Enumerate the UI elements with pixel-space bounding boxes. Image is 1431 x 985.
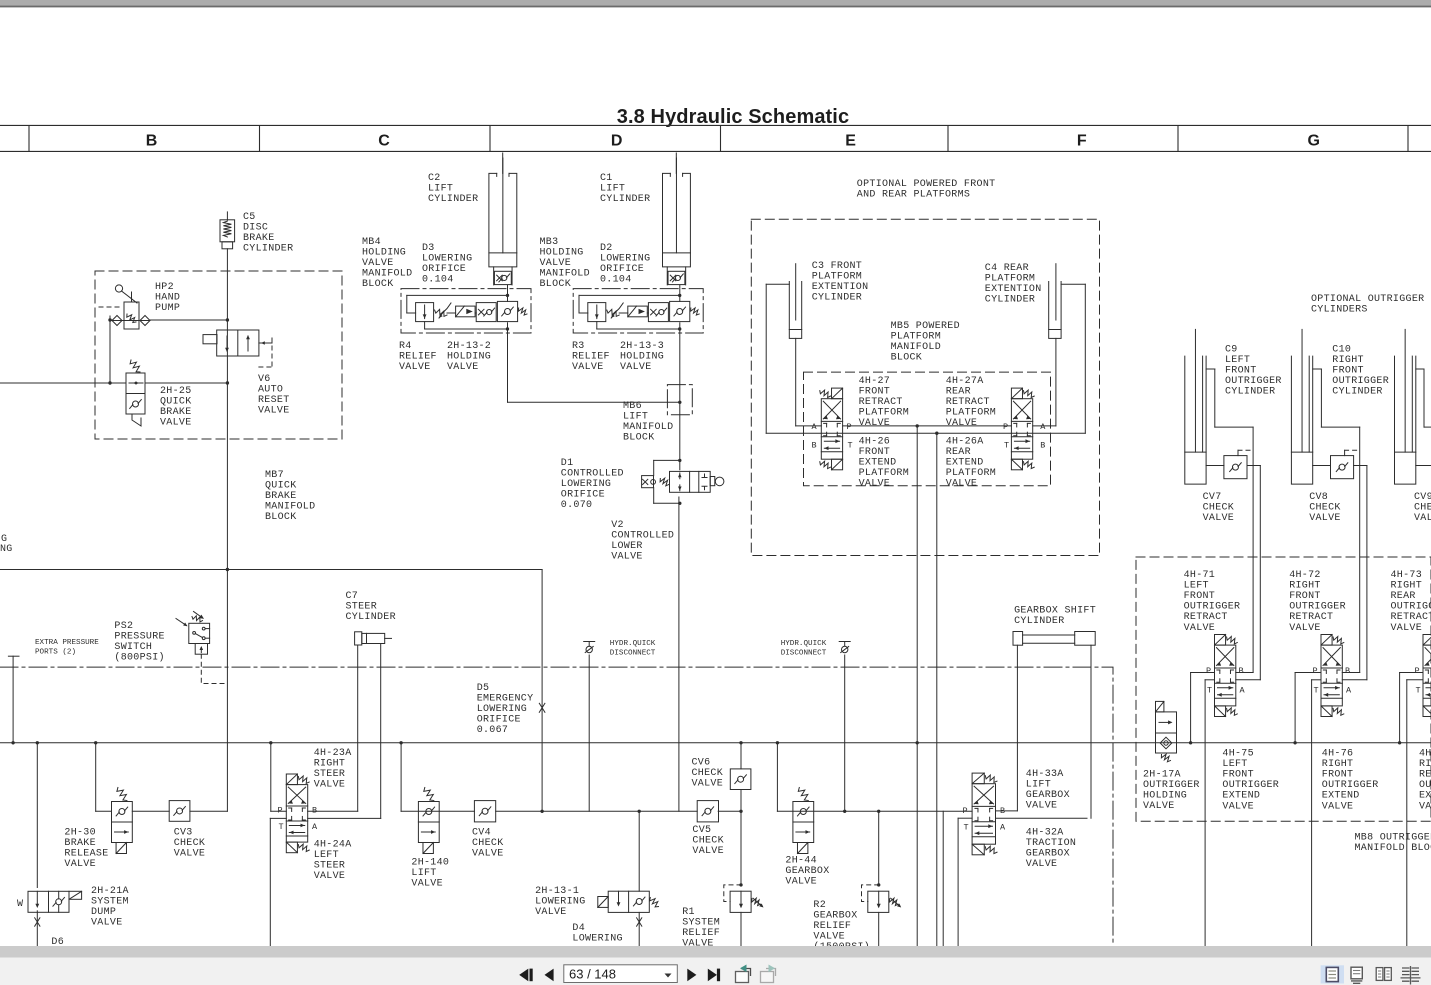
wire 4H-72 T drain [1311,680,1313,946]
svg-text:F: F [1077,133,1087,150]
relief valve R4 [406,295,408,313]
svg-text:P: P [847,422,852,432]
relief valve R3 [578,295,580,313]
hand pump HP2 [110,320,150,322]
wire gearbox cyl right down [1090,645,1092,818]
svg-text:P: P [1206,666,1211,676]
wire to 4H-27 A [796,425,822,427]
wire P-P platform valves [843,425,1012,427]
relief valve R1 [739,883,742,886]
wire 4H-71 T stub [1205,679,1214,681]
junction x542 connector [540,810,543,813]
cylinder C7 steer [355,632,362,645]
svg-text:3.8 Hydraulic Schematic: 3.8 Hydraulic Schematic [617,106,849,128]
wire 2H-25 to x227 [145,382,227,384]
valve 2H-17A outrigger holding [1156,701,1164,712]
valve 4H-73 stack partial [1423,635,1431,646]
wire horizontal y569 to D5 drop [0,569,542,571]
valve 2H-44 gearbox [798,788,808,801]
wire to 4H-23A B [308,810,358,812]
toolbar last page button [708,969,717,982]
wire C2 rod above [502,153,504,173]
svg-text:W: W [17,899,23,910]
svg-text:P: P [1313,666,1318,676]
layout icon two page continuous [1401,966,1421,985]
junction x639 connector [638,810,641,813]
svg-text:MB8 OUTRIGGERMANIFOLD BLOC: MB8 OUTRIGGERMANIFOLD BLOC [1355,833,1431,855]
check valve in manifold R3 [670,301,690,321]
wire CV6 drop upper [740,743,742,769]
wire MB4 check down [507,323,509,403]
svg-text:NG: NG [0,544,13,555]
wire 4H-72 B stub [1342,672,1359,674]
drawing grid header band [0,125,1431,151]
wire gearbox T drain x958 [957,818,959,946]
toolbar first page button [519,969,528,982]
junction bus 4H-72 [1293,741,1296,744]
wire drop to lift valve x401 [400,743,402,812]
wire x96 to 2H-30 [96,810,112,812]
junction x227 y569 [226,568,229,571]
wire 4H-71 P stub [1191,672,1215,674]
cylinder C4 rear platform [1055,264,1057,320]
wire C3 left vertical [765,284,767,433]
svg-text:T: T [1416,686,1421,696]
wire D5 vertical x542 [541,570,543,812]
valve 2H-13-1 lowering [598,897,608,908]
page title [0,106,1431,151]
wire 4H-73 P drop [1399,673,1401,743]
svg-text:B: B [146,133,158,150]
svg-text:P: P [1003,422,1008,432]
valve 4H-72/4H-76 stack [1321,635,1332,646]
wire to 4H-33A B [996,810,1018,812]
svg-text:B: B [812,441,817,451]
svg-text:D: D [611,133,623,150]
layout icon continuous [1351,967,1362,979]
valve 4H-23A/4H-24A steer stack [286,774,297,785]
check valve CV8 [1331,456,1354,479]
valve 4H-27A/4H-26A rear platform stack [1011,388,1022,399]
wire quick disconnect 2 drop [844,655,846,811]
orifice check in manifold R3 [648,303,668,322]
cylinder C5 disc brake [220,220,235,242]
manifold box R4 [401,289,531,333]
wire connector to CV6 line [718,810,741,812]
valve 4H-71/4H-75 stack [1215,635,1226,646]
svg-text:B: B [1000,806,1005,816]
junction x227 brake [226,381,229,384]
wire lift connector right segment [777,810,972,812]
check valve in manifold R4 [497,301,517,321]
wire C4 head side [1061,283,1085,285]
svg-text:HYDR.QUICKDISCONNECT: HYDR.QUICKDISCONNECT [781,640,827,658]
wire 4H-72 P stub [1295,672,1321,674]
toolbar next page button [687,969,696,982]
svg-text:A: A [1240,686,1246,696]
wire across to MB6 [508,401,680,403]
svg-text:A: A [1000,823,1006,833]
manifold block MB7 dashed box [95,271,342,439]
svg-text:T: T [1314,686,1319,696]
wire C7 left down [357,645,359,811]
wire to 4H-24A A [308,817,381,819]
wire C1 circuit down x680 [679,323,681,470]
relief valve R2 [877,883,880,886]
svg-text:B: B [1345,666,1350,676]
svg-text:P: P [1415,666,1420,676]
junction x879 connector [877,810,880,813]
optional platforms dashed box [751,219,1099,555]
wire 4H-72 A stub [1342,679,1367,681]
wire C3 rod side down [795,338,797,426]
wire 4H-71 B stub [1236,672,1253,674]
wire 4H-73 P stub [1400,672,1423,674]
svg-text:B: B [312,806,317,816]
wire lift connector mid segment [496,810,698,812]
wire to 4H-27A A [1033,425,1056,427]
bottom gray band [0,946,1431,958]
wire 4H-73 T drain [1406,680,1408,946]
svg-text:B: B [1239,666,1244,676]
wire 2H-21A tank down [36,911,38,946]
wire 4H-71 A stub [1236,679,1261,681]
junction bus x401 [399,741,402,744]
wire V2 outlet down x679 [678,497,680,811]
svg-text:C3 FRONTPLATFORMEXTENTIONCYLIN: C3 FRONTPLATFORMEXTENTIONCYLINDER [812,261,869,304]
wire brake circuit vertical x227 [226,249,228,812]
svg-text:T: T [1207,686,1212,696]
svg-text:E: E [845,133,856,150]
hydraulic quick disconnect 1 [584,641,595,643]
wire platform T long drop x937 [936,433,938,946]
wire drop to 2H-13-1 x639 [638,811,640,891]
check valve CV6 [730,769,751,790]
valve 2H-30 brake release [117,788,127,801]
valve 4H-27/4H-26 front platform stack [832,388,843,399]
wire drop to R2 x879 [878,811,880,885]
wire pump branch vertical [109,316,111,383]
cylinder C10 right front outrigger [1301,329,1303,452]
svg-text:B: B [1040,441,1045,451]
wire C4 rod side down [1055,338,1057,426]
wire steer feed x271 [270,743,272,812]
junction bus x37 [36,741,39,744]
valve V6 auto reset [203,335,217,344]
svg-text:A: A [312,822,318,832]
svg-text:T: T [1004,441,1009,451]
wire 4H-72 P drop [1294,673,1296,743]
manifold MB8 dashed box [1136,557,1431,821]
pressure switch PS2 [189,623,210,643]
svg-text:A: A [812,422,818,432]
wire CV6 to R1 [740,790,742,886]
junction bus x777 [776,741,779,744]
svg-text:G: G [1307,133,1319,150]
cylinder CV9 partial right edge [1404,329,1406,452]
wire quick disconnect 1 drop [588,655,590,811]
wire hand pump outlet [150,319,227,321]
svg-text:4H-RIGREAOUTEXTVAL: 4H-RIGREAOUTEXTVAL [1419,749,1431,813]
cylinder gearbox shift [1013,632,1023,646]
manifold box R3 [573,289,703,333]
wire drop to 2H-30 x96 [95,743,97,812]
wire 2H-13-1 tank down [638,912,640,946]
wire drop to 2H-44 x777 [776,743,778,812]
junction 2H-25 line [108,381,111,384]
svg-text:A: A [1346,686,1352,696]
wire steer P stub [271,810,287,812]
toolbar next view button (disabled) [761,969,776,983]
wire lift connector left segment [401,810,474,812]
wire T line platforms [766,432,1085,434]
wire platform P long drop x917 [916,426,918,946]
junction CV6 vertical [739,810,742,813]
junction pump branch [108,318,111,321]
wires C10 right front outrigger [1313,368,1322,370]
hydraulic quick disconnect 2 [839,641,850,643]
top window bar [0,0,1431,7]
toolbar prev page button [545,969,554,982]
junction x227 pump [226,318,229,321]
junction platform T drop [935,432,938,435]
junction bus x741 [739,741,742,744]
manifold block MB6 dashed box [667,385,692,415]
wire C3 head side [766,283,789,285]
wire R1 tank down [740,912,742,946]
wire 4H-71 T drain [1204,680,1206,946]
cylinder C2 lift [502,158,504,253]
junction MB6 [678,401,681,404]
wire CV3 to x227 [190,810,228,812]
main pressure bus y743 [0,742,1431,744]
svg-text:HYDR.QUICKDISCONNECT: HYDR.QUICKDISCONNECT [610,640,656,658]
cylinder C1 lift [675,158,677,253]
svg-text:A: A [1040,422,1046,432]
wire gearbox drain x943 [942,811,944,946]
wire R2 tank down [878,912,880,946]
wire drop to 2H-21A x37 [36,743,38,888]
wire C1 rod above [675,153,677,173]
port symbol extra pressure [8,655,19,657]
dash-dot system boundary line [0,667,1113,946]
junction bus x271 [269,741,272,744]
cylinder C3 front platform [795,264,797,320]
solenoid valve in manifold R4 [456,306,476,317]
check valve CV4 [474,801,495,822]
valve 2H-25 quick brake [130,360,140,372]
svg-text:T: T [848,441,853,451]
wire C7 right down [380,644,382,819]
wire pump suction stub [110,319,112,321]
wire C1 to manifold [679,285,681,301]
svg-text:P: P [963,806,968,816]
valve V2 controlled lower with orifice D1 [654,459,680,461]
svg-text:C: C [378,133,390,150]
wire 4H-33A T stub [958,817,972,819]
wire 2H-30 to CV3 [132,810,169,812]
svg-text:2H-25QUICKBRAKEVALVE: 2H-25QUICKBRAKEVALVE [160,386,192,429]
wire C4 right vertical [1084,284,1086,433]
junction platform P drop [916,424,919,427]
solenoid valve in manifold R3 [628,306,648,317]
wire C5 line top [226,212,228,220]
wire gearbox cyl left down [1016,645,1018,811]
toolbar page number box [564,965,678,983]
junction x845 connector [843,810,846,813]
valve 2H-140 lift [424,788,434,801]
wire 4H-71 P drop [1190,673,1192,743]
toolbar previous view button [736,969,751,983]
layout icon single page (selected) [1321,965,1344,983]
valve 4H-33A/4H-32A gearbox stack [972,773,984,784]
svg-text:63 / 148: 63 / 148 [569,966,616,981]
wire steer T stub [270,817,286,819]
cylinder C9 left front outrigger [1194,329,1196,452]
orifice check in manifold R4 [476,303,496,322]
check valve CV3 [169,801,190,822]
junction bus x917 [916,741,919,744]
svg-text:P: P [278,806,283,816]
wires C9 left front outrigger [1206,368,1215,370]
svg-text:T: T [279,822,284,832]
wire to 4H-32A A [996,817,1088,819]
junction bus 4H-71 [1189,741,1192,744]
svg-text:T: T [964,823,969,833]
junction bus x96 [94,741,97,744]
toolbar background [0,958,1431,985]
layout icon two pages [1376,968,1383,981]
svg-text:CV9CHEVAL: CV9CHEVAL [1414,492,1431,524]
wire C2 to manifold [507,285,509,301]
junction bus 4H-73 [1398,741,1401,744]
manifold MB5 dashed box [804,372,1051,486]
wire 2H-25 left feed [0,382,126,384]
check valve CV7 [1224,456,1247,479]
check valve CV5 [697,801,718,822]
wire 4H-72 T stub [1312,679,1321,681]
wire 4H-73 T stub [1407,679,1423,681]
wire steer T drain [269,818,271,946]
